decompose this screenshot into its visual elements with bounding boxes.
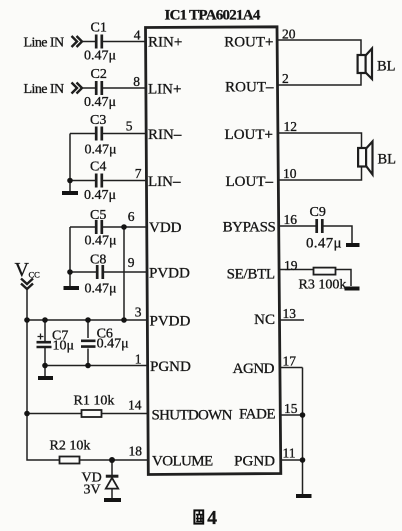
svg-text:PGND: PGND (150, 359, 191, 375)
svg-text:6: 6 (128, 209, 135, 224)
svg-text:RIN–: RIN– (148, 127, 182, 143)
svg-text:0.47μ: 0.47μ (84, 49, 116, 64)
svg-text:RIN+: RIN+ (148, 35, 182, 51)
svg-text:3: 3 (135, 305, 142, 320)
svg-text:LOUT+: LOUT+ (225, 127, 273, 143)
svg-text:ROUT–: ROUT– (225, 80, 274, 96)
svg-text:C8: C8 (90, 253, 106, 268)
svg-text:2: 2 (282, 71, 289, 86)
svg-text:SHUTDOWN: SHUTDOWN (152, 408, 233, 424)
svg-text:LIN+: LIN+ (148, 82, 181, 98)
svg-text:0.47μ: 0.47μ (85, 234, 117, 249)
svg-text:C9: C9 (310, 205, 326, 220)
svg-text:BL: BL (378, 152, 397, 168)
svg-text:12: 12 (284, 119, 298, 134)
svg-text:0.47μ: 0.47μ (84, 95, 116, 110)
svg-text:13: 13 (283, 306, 297, 321)
svg-text:PGND: PGND (234, 454, 275, 470)
svg-text:C3: C3 (90, 113, 106, 128)
svg-text:11: 11 (283, 446, 296, 461)
svg-text:15: 15 (284, 401, 298, 416)
svg-text:0.47μ: 0.47μ (306, 236, 342, 252)
svg-text:BL: BL (377, 59, 396, 75)
svg-text:C1: C1 (91, 21, 107, 36)
svg-text:FADE: FADE (239, 407, 275, 423)
svg-text:Line IN: Line IN (24, 82, 65, 97)
svg-text:10μ: 10μ (53, 339, 75, 354)
svg-text:4: 4 (207, 508, 217, 529)
svg-text:0.47μ: 0.47μ (84, 188, 116, 203)
svg-text:5: 5 (126, 119, 133, 134)
svg-text:4: 4 (134, 28, 141, 43)
svg-text:SE/BTL: SE/BTL (227, 267, 275, 283)
svg-text:1: 1 (135, 352, 142, 367)
svg-text:7: 7 (135, 166, 142, 181)
svg-text:ROUT+: ROUT+ (224, 35, 273, 51)
svg-text:R3 100k: R3 100k (299, 278, 347, 293)
svg-text:C2: C2 (91, 67, 107, 82)
svg-text:0.47μ: 0.47μ (85, 282, 117, 297)
svg-text:C5: C5 (90, 208, 106, 223)
svg-text:R2 10k: R2 10k (50, 439, 91, 454)
svg-text:3V: 3V (84, 483, 101, 498)
svg-text:20: 20 (282, 27, 296, 42)
svg-text:BYPASS: BYPASS (223, 220, 276, 236)
svg-text:0.47μ: 0.47μ (97, 337, 129, 352)
svg-text:VCC: VCC (15, 259, 41, 281)
svg-text:AGND: AGND (233, 361, 275, 377)
svg-text:LIN–: LIN– (148, 174, 181, 190)
svg-text:17: 17 (283, 354, 297, 369)
svg-text:PVDD: PVDD (150, 314, 191, 330)
svg-text:19: 19 (284, 258, 298, 273)
svg-text:9: 9 (128, 255, 135, 270)
svg-text:10: 10 (283, 166, 297, 181)
svg-text:C4: C4 (90, 160, 106, 175)
svg-text:PVDD: PVDD (149, 266, 190, 282)
svg-text:R1 10k: R1 10k (74, 394, 115, 409)
svg-text:18: 18 (129, 444, 143, 459)
svg-text:VDD: VDD (149, 220, 182, 236)
svg-text:VOLUME: VOLUME (152, 454, 213, 470)
svg-text:IC1 TPA6021A4: IC1 TPA6021A4 (165, 8, 261, 24)
svg-text:LOUT–: LOUT– (226, 174, 274, 190)
svg-text:NC: NC (254, 312, 275, 328)
svg-text:0.47μ: 0.47μ (85, 143, 117, 158)
svg-text:Line IN: Line IN (24, 36, 65, 51)
svg-text:14: 14 (128, 398, 142, 413)
svg-text:16: 16 (284, 212, 298, 227)
svg-text:8: 8 (133, 74, 140, 89)
